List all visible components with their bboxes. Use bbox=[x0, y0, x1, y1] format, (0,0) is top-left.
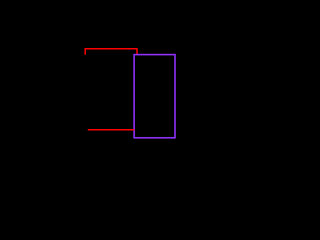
wire: red top bracket (horizontal run with two short downward legs) bbox=[85, 49, 137, 55]
component box U1 (purple rectangle outline) bbox=[134, 55, 175, 138]
wire: red bottom lead into left side of box bbox=[88, 129, 135, 131]
